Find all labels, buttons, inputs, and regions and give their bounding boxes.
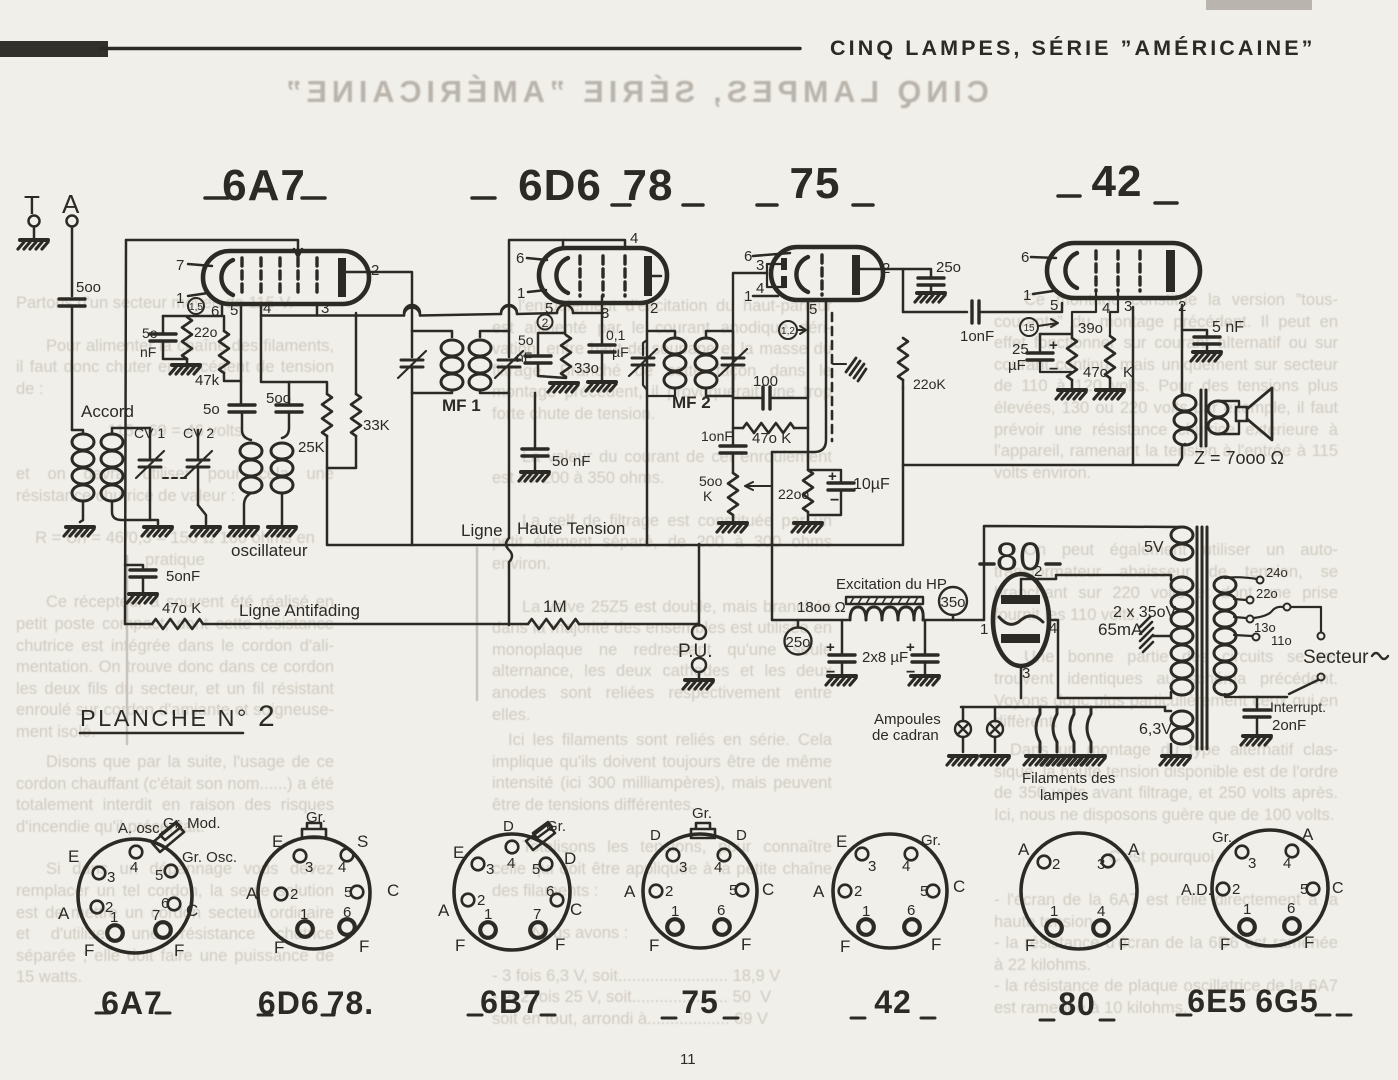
ground [1094, 390, 1124, 399]
svg-text:E: E [68, 847, 79, 866]
ground [266, 527, 296, 536]
wire [1109, 378, 1112, 388]
wire [1178, 393, 1185, 465]
svg-text:2: 2 [854, 883, 862, 900]
arrow to cathode [797, 326, 806, 334]
svg-text:6B7: 6B7 [480, 984, 542, 1020]
svg-text:MF 2: MF 2 [672, 393, 711, 412]
ground [826, 676, 856, 685]
svg-text:Excitation du HP: Excitation du HP [836, 576, 947, 593]
svg-text:1,5: 1,5 [189, 302, 203, 313]
capacitor 100 [763, 387, 770, 409]
wire [1206, 344, 1209, 350]
svg-text:F: F [840, 937, 850, 956]
AVC vertical wire [125, 240, 126, 624]
variable capacitor CV1 [149, 428, 152, 460]
potentiometer 500K [728, 473, 738, 515]
interrupter switch [1318, 674, 1325, 681]
coupling wire [903, 311, 967, 314]
svg-text:3: 3 [679, 859, 687, 876]
svg-text:11o: 11o [1271, 633, 1292, 648]
svg-text:25: 25 [1012, 341, 1029, 358]
cathode wire [807, 300, 810, 470]
faded bleed-through text [250, 82, 1020, 104]
svg-text:78: 78 [623, 161, 674, 210]
svg-text:5o nF: 5o nF [552, 453, 590, 470]
svg-text:47k: 47k [195, 372, 220, 389]
wire 6D6 avc [508, 393, 511, 538]
capacitor 50nF (cathode) [525, 356, 551, 363]
svg-text:+: + [1049, 337, 1058, 354]
wire [903, 269, 931, 277]
tube 80 envelope [993, 574, 1049, 666]
plate wire 75 [860, 269, 903, 312]
wire [534, 456, 537, 470]
svg-text:1: 1 [1050, 903, 1058, 920]
selector arm [1254, 607, 1283, 618]
svg-text:42: 42 [874, 984, 912, 1020]
svg-text:1: 1 [176, 290, 184, 307]
svg-text:1M: 1M [543, 597, 567, 616]
shield hatch [846, 358, 866, 381]
svg-text:F: F [649, 936, 659, 955]
tube 6D6 envelope [539, 248, 667, 303]
tube 6A7 grids [240, 258, 243, 297]
svg-text:4: 4 [1283, 855, 1291, 872]
svg-text:C: C [570, 900, 582, 919]
resistor 33K [351, 394, 361, 436]
ground [792, 523, 822, 532]
wire [186, 359, 189, 363]
tube 80 plate A [1001, 595, 1040, 604]
MF1 primary bottom wire [412, 390, 452, 393]
ground [1160, 756, 1190, 765]
wire [326, 382, 329, 545]
tube 75 cathode [796, 257, 808, 292]
wire [244, 493, 251, 525]
wire [601, 352, 604, 380]
svg-text:F: F [555, 935, 565, 954]
MF1 primary coil [441, 340, 463, 390]
svg-text:5o: 5o [518, 332, 534, 348]
antifading line [125, 623, 699, 626]
pin 6 lead [1031, 257, 1056, 258]
grid cap bracket pin4 [563, 240, 625, 248]
wire [163, 316, 187, 359]
svg-text:1: 1 [862, 903, 870, 920]
tube 6A7 plate [338, 258, 346, 297]
wire pin1 [1072, 291, 1096, 327]
screen bus wire [261, 313, 603, 316]
wire grid to wiper and HT [771, 452, 774, 544]
tube 42 envelope [1047, 243, 1200, 298]
svg-text:22oo: 22oo [778, 486, 809, 502]
grid top wire [126, 240, 302, 257]
screen wire pin3 [1132, 307, 1135, 465]
svg-text:F: F [359, 937, 369, 956]
pin 7 lead [188, 264, 212, 266]
svg-text:6: 6 [343, 904, 351, 921]
svg-text:6: 6 [717, 902, 725, 919]
svg-text:Gr. Osc.: Gr. Osc. [182, 849, 237, 866]
header corner bar [0, 41, 108, 57]
ground [947, 756, 977, 765]
speaker driver [1236, 407, 1247, 421]
svg-text:5: 5 [729, 882, 737, 899]
svg-text:4: 4 [714, 859, 722, 876]
P.U. terminal 2 [692, 658, 706, 672]
resistor 470 [1105, 336, 1115, 378]
P.U. terminal 1 [692, 625, 706, 639]
wire MF2 to diode [733, 273, 767, 445]
svg-text:1: 1 [1023, 287, 1031, 304]
tube 6A7 cathode [221, 260, 233, 295]
svg-text:6: 6 [1287, 900, 1295, 917]
wire [112, 428, 150, 434]
svg-text:6: 6 [161, 895, 169, 912]
wire [733, 397, 808, 400]
svg-text:C: C [387, 881, 399, 900]
wire [282, 382, 289, 438]
svg-text:2: 2 [371, 262, 379, 279]
wire [1071, 380, 1074, 388]
speaker leads [1218, 401, 1239, 434]
svg-text:39o: 39o [1078, 320, 1103, 337]
wire [224, 316, 241, 381]
svg-text:Haute Tension: Haute Tension [517, 519, 625, 538]
svg-text:F: F [1025, 936, 1035, 955]
capacitor 25uF [1027, 353, 1053, 360]
svg-text:6: 6 [546, 883, 554, 900]
output transformer secondary [1208, 401, 1228, 434]
svg-text:Gr.: Gr. [1212, 829, 1232, 846]
svg-text:Ampoules: Ampoules [874, 711, 941, 728]
svg-text:6: 6 [744, 248, 752, 265]
tube 42 plate [1166, 250, 1175, 292]
MF1 secondary trimmer [508, 331, 511, 357]
svg-text:4: 4 [902, 858, 910, 875]
svg-text:6A7: 6A7 [101, 985, 163, 1021]
svg-text:D: D [564, 849, 576, 868]
pin 1 lead [528, 290, 546, 292]
svg-text:A: A [1128, 840, 1140, 859]
svg-text:2: 2 [542, 316, 549, 330]
ground [548, 383, 578, 392]
svg-text:F: F [1119, 935, 1129, 954]
shield ground stub [833, 363, 846, 365]
svg-text:1: 1 [1243, 901, 1251, 918]
svg-text:5V: 5V [1144, 539, 1164, 556]
svg-text:K: K [703, 488, 713, 504]
tube 6D6 grids [578, 256, 581, 296]
svg-text:42: 42 [1092, 157, 1143, 206]
tube 6A7 envelope [203, 251, 369, 304]
hop of 509 wire over HT [506, 538, 512, 625]
svg-text:lampes: lampes [1040, 787, 1088, 804]
capacitor 10nF [720, 446, 746, 453]
plate wire pin4 [1049, 620, 1171, 698]
svg-text:11: 11 [680, 1051, 696, 1068]
scan crease mid [476, 548, 479, 700]
tap 220 [1234, 599, 1246, 600]
gang dashed link [163, 477, 186, 479]
wire [33, 227, 36, 239]
wire [698, 672, 701, 678]
oscillator coil 1 [240, 443, 262, 493]
ground [915, 293, 945, 302]
capacitor 10uF [828, 483, 854, 490]
shield dashed [831, 313, 834, 441]
node 1,5 circled [188, 298, 204, 314]
svg-text:A: A [1302, 825, 1314, 844]
svg-text:2onF: 2onF [1272, 717, 1306, 734]
svg-text:25o: 25o [936, 259, 961, 276]
svg-text:47o: 47o [1083, 364, 1108, 381]
wire [80, 501, 83, 522]
pin 4 wire [261, 303, 326, 382]
wire [1182, 330, 1207, 336]
wire [601, 296, 604, 344]
svg-text:F: F [1220, 935, 1230, 954]
header rule line [100, 47, 800, 50]
terminal A [67, 216, 78, 227]
svg-text:10µF: 10µF [853, 476, 890, 493]
svg-text:3: 3 [756, 257, 764, 274]
svg-text:F: F [84, 941, 94, 960]
filament arc 4 [1087, 707, 1091, 752]
svg-text:F: F [274, 938, 284, 957]
underline [80, 732, 243, 735]
dial lamp 1 [955, 721, 971, 737]
svg-text:5o: 5o [203, 401, 220, 418]
svg-text:K: K [1123, 364, 1133, 381]
svg-text:6D6: 6D6 [518, 161, 602, 210]
wire [807, 512, 810, 521]
capacitor 500 [276, 405, 302, 412]
svg-text:6,3V: 6,3V [1139, 721, 1172, 738]
capacitor 50 [229, 405, 255, 412]
socket 80 [1018, 833, 1140, 1022]
filament wire pin3 [1020, 666, 1023, 698]
pin 3 wire [316, 303, 319, 316]
antenna coil primary [72, 434, 94, 501]
wire [1170, 575, 1173, 698]
svg-text:1: 1 [980, 621, 988, 638]
tap 130 [1234, 617, 1246, 618]
capacitor 50nF [150, 334, 176, 341]
svg-text:5: 5 [1300, 881, 1308, 898]
resistor 390 [1067, 338, 1077, 380]
svg-text:24o: 24o [1266, 565, 1288, 580]
hop-over [404, 308, 420, 316]
capacitor 5nF [1194, 337, 1220, 344]
svg-text:Gr.: Gr. [306, 809, 326, 826]
resistor 470K antifading [152, 619, 203, 629]
node 1,2 circled [779, 321, 797, 339]
output transformer core [1200, 390, 1203, 446]
svg-text:5: 5 [155, 867, 163, 884]
wire [142, 577, 145, 592]
capacitor 50nF screen [522, 449, 548, 456]
ground [190, 527, 220, 536]
MF1 primary top wire [412, 331, 452, 337]
svg-text:F: F [741, 935, 751, 954]
ground [1056, 390, 1086, 399]
svg-text:Filaments des: Filaments des [1022, 770, 1115, 787]
svg-text:5: 5 [344, 884, 352, 901]
svg-text:5: 5 [920, 883, 928, 900]
tube 75 diode plates [781, 258, 787, 270]
ground [683, 680, 713, 689]
socket 42 [813, 832, 965, 1020]
terminal T [29, 216, 40, 227]
svg-text:5: 5 [532, 861, 540, 878]
wire [1110, 291, 1118, 336]
ground [909, 676, 939, 685]
svg-text:D: D [503, 818, 514, 835]
capacitor 20nF [1256, 697, 1259, 709]
svg-text:D: D [650, 827, 661, 844]
svg-text:Gr. Mod.: Gr. Mod. [163, 815, 221, 832]
svg-text:F: F [455, 936, 465, 955]
svg-text:5oo: 5oo [76, 279, 101, 296]
capacitor 10nF coupling [972, 301, 979, 323]
wire [538, 363, 566, 378]
tuning coil secondary [101, 434, 123, 501]
svg-text:de cadran: de cadran [872, 727, 939, 744]
svg-text:5oo: 5oo [699, 473, 723, 489]
svg-text:2: 2 [290, 886, 298, 903]
svg-text:1: 1 [517, 285, 525, 302]
svg-text:6A7: 6A7 [222, 161, 306, 210]
filament bus [961, 706, 1165, 709]
svg-text:A. osc.: A. osc. [118, 820, 164, 837]
node 15 circled [1020, 318, 1038, 336]
6D6 grid wire [509, 240, 563, 331]
svg-text:Z = 7ooo Ω: Z = 7ooo Ω [1194, 448, 1284, 468]
ground [170, 365, 200, 374]
plate wire pin2 [1021, 575, 1171, 595]
wire [125, 565, 143, 569]
resistor 2200 [803, 470, 813, 512]
svg-text:CINQ LAMPES, SÉRIE ”AMÉRICAINE: CINQ LAMPES, SÉRIE ”AMÉRICAINE” [830, 35, 1316, 60]
svg-text:7: 7 [176, 257, 184, 274]
svg-text:S: S [357, 832, 368, 851]
svg-text:−: − [830, 492, 839, 509]
svg-text:6: 6 [211, 303, 219, 320]
wire [72, 430, 83, 434]
svg-text:3: 3 [868, 858, 876, 875]
socket 6B7 [438, 818, 582, 1020]
node 2 circled [538, 315, 553, 330]
svg-text:2 x 35oV: 2 x 35oV [1113, 604, 1176, 621]
svg-text:A: A [624, 882, 636, 901]
svg-text:D: D [736, 827, 747, 844]
ground [717, 523, 747, 532]
svg-text:PLANCHE N° 2: PLANCHE N° 2 [80, 700, 277, 733]
svg-text:MF 1: MF 1 [442, 396, 481, 415]
ground [1241, 736, 1271, 745]
ground [18, 240, 48, 249]
tube 75 grid [820, 255, 823, 295]
svg-text:6: 6 [1021, 249, 1029, 266]
svg-text:6: 6 [907, 902, 915, 919]
filament arc 1 [1036, 707, 1040, 752]
hop-over [501, 306, 517, 314]
capacitor 50nF [130, 570, 156, 577]
svg-text:3: 3 [107, 869, 115, 886]
speaker cone [1247, 388, 1272, 440]
wire plate to HT [646, 331, 649, 545]
wire choke to rectifier [923, 526, 1180, 620]
hop-over [501, 305, 517, 313]
wire [1039, 334, 1042, 352]
svg-text:3: 3 [305, 859, 313, 876]
svg-text:Interrupt.: Interrupt. [1270, 699, 1326, 715]
wire [281, 493, 284, 525]
top right scan mark [1206, 0, 1312, 10]
wire 470K line [733, 427, 808, 430]
wire [327, 313, 356, 468]
wire [979, 303, 1062, 312]
pin 6 lead [753, 253, 790, 256]
output transformer primary [1174, 395, 1196, 445]
svg-text:22o: 22o [1256, 586, 1278, 601]
scan crease left [126, 556, 129, 744]
svg-text:1onF: 1onF [701, 428, 733, 444]
MF1 secondary bottom wire [480, 390, 509, 393]
pot wiper arrow [745, 482, 772, 490]
wire [841, 620, 844, 674]
svg-text:−: − [1049, 361, 1058, 378]
ground [586, 382, 616, 391]
MF1 secondary coil [469, 340, 491, 390]
filament arc 3 [1070, 707, 1074, 752]
wire [411, 393, 414, 545]
wire [810, 490, 841, 515]
svg-text:Secteur: Secteur [1303, 647, 1369, 668]
tube 6D6 cathode [556, 258, 568, 293]
svg-text:1: 1 [110, 909, 118, 926]
svg-text:7: 7 [533, 906, 541, 923]
svg-text:4: 4 [507, 855, 515, 872]
svg-text:18oo Ω: 18oo Ω [797, 599, 846, 616]
choke coil [850, 607, 923, 620]
filament arc 2 [1053, 707, 1057, 752]
resistor 220K [898, 338, 908, 380]
MF1 primary trimmer [411, 331, 414, 357]
HT bus line [328, 388, 903, 545]
svg-text:4: 4 [630, 230, 638, 247]
ground [979, 756, 1009, 765]
svg-text:A: A [438, 901, 450, 920]
svg-text:A: A [1018, 840, 1030, 859]
tube 75 plate [852, 255, 860, 295]
svg-text:6E56G5: 6E56G5 [1187, 983, 1318, 1019]
svg-text:2: 2 [1052, 856, 1060, 873]
pin 6 lead [527, 258, 547, 260]
svg-text:25K: 25K [298, 439, 325, 456]
capacitor 0.1uF [589, 345, 615, 352]
svg-text:22o: 22o [194, 324, 218, 340]
wire cathode [1040, 327, 1072, 338]
svg-text:4: 4 [130, 859, 138, 876]
tube 42 grids [1094, 251, 1097, 291]
svg-text:3: 3 [1124, 298, 1132, 315]
svg-text:33K: 33K [363, 417, 390, 434]
svg-text:1: 1 [300, 906, 308, 923]
svg-text:100: 100 [753, 373, 778, 390]
